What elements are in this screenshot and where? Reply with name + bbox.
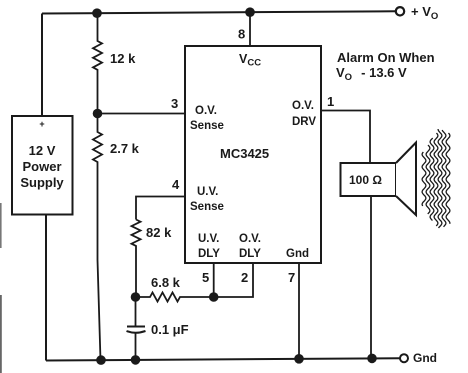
node bottom / pin7 [294, 354, 304, 364]
wire top rail [42, 11, 395, 13]
wire pin 5 [213, 263, 215, 297]
svg-text:8: 8 [238, 27, 245, 42]
svg-text:DRV: DRV [292, 116, 316, 128]
resistor R 100 ohm box [341, 163, 397, 196]
svg-text:O.V.: O.V. [239, 233, 261, 245]
sound waves [422, 129, 450, 228]
node junction top rail / 12k [92, 8, 102, 18]
svg-text:O.V.: O.V. [292, 100, 314, 112]
svg-text:Power: Power [22, 159, 61, 174]
wire pin 7 [298, 263, 300, 359]
wire speaker to bottom rail [370, 196, 372, 358]
svg-text:MC3425: MC3425 [220, 146, 269, 161]
svg-text:12 k: 12 k [110, 51, 136, 66]
resistor R 82k [132, 220, 173, 298]
svg-text:U.V.: U.V. [197, 186, 218, 198]
svg-text:+: + [39, 119, 44, 129]
svg-text:Sense: Sense [190, 120, 224, 132]
svg-text:2.7 k: 2.7 k [110, 141, 140, 156]
speaker horn [396, 143, 416, 216]
svg-text:2: 2 [241, 270, 248, 285]
op-amp U1 MC3425 box [185, 46, 321, 263]
svg-text:Gnd: Gnd [286, 248, 309, 260]
node bottom / speaker [367, 354, 377, 364]
svg-text:U.V.: U.V. [198, 233, 219, 245]
node bottom / 2.7k [96, 355, 106, 365]
bottom rail wire [46, 358, 400, 360]
node A: 12k/2.7k/pin3 junction [93, 109, 103, 119]
svg-text:0.1 μF: 0.1 μF [151, 322, 189, 337]
scan artifact left edge [0, 203, 2, 248]
capacitor C 0.1uF [127, 297, 189, 360]
terminal Gnd [400, 351, 437, 365]
terminal +Vo [396, 4, 438, 22]
node 82k/6.8k/cap junction [131, 292, 141, 302]
wire pin 8 [249, 12, 251, 46]
wire supply bottom lead [45, 215, 47, 361]
svg-text:O.V.: O.V. [195, 105, 217, 117]
svg-text:DLY: DLY [239, 248, 261, 260]
node junction top rail / pin8 [245, 7, 255, 17]
wire left vertical from top rail to supply [41, 14, 43, 117]
svg-text:Sense: Sense [190, 201, 224, 213]
node pin5/6.8k junction [209, 292, 219, 302]
svg-text:7: 7 [288, 270, 295, 285]
resistor R 6.8k [136, 275, 215, 302]
svg-text:Gnd: Gnd [413, 351, 437, 365]
power supply box [12, 116, 73, 215]
note: alarm condition text [336, 50, 435, 83]
svg-text:82 k: 82 k [146, 225, 172, 240]
svg-text:100 Ω: 100 Ω [349, 173, 382, 187]
svg-text:Alarm On When: Alarm On When [337, 50, 435, 65]
svg-text:1: 1 [327, 94, 334, 109]
wire pin 2 [214, 263, 253, 297]
svg-text:6.8 k: 6.8 k [151, 275, 181, 290]
svg-text:5: 5 [202, 270, 209, 285]
svg-text:12 V: 12 V [29, 143, 56, 158]
wire pin 3 [98, 113, 186, 115]
svg-text:Supply: Supply [20, 175, 64, 190]
svg-text:4: 4 [172, 177, 180, 192]
resistor R 2.7k [93, 114, 140, 361]
svg-text:DLY: DLY [198, 248, 220, 260]
svg-text:3: 3 [171, 96, 178, 111]
resistor R 12k [93, 13, 136, 113]
node bottom / capacitor [131, 355, 141, 365]
wire pin 4 [136, 197, 185, 220]
wire pin 1 to speaker [321, 111, 370, 164]
